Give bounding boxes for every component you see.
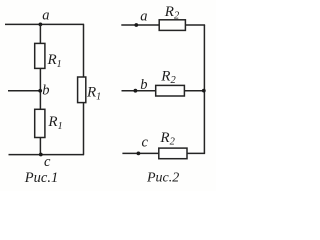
resistor R1 (left branch, upper) <box>35 43 62 70</box>
wire: Fig.1 left branch lower segment <box>39 138 41 155</box>
node a <box>39 8 50 27</box>
node a (Fig.2) <box>134 9 147 27</box>
svg-text:b: b <box>140 77 147 93</box>
svg-text:Рис.2: Рис.2 <box>146 171 179 186</box>
wire: Fig.2 branch c stub <box>122 152 158 154</box>
wire: Fig.2 branch c right segment <box>187 152 205 154</box>
wire: Fig.2 branch a right segment <box>185 24 205 26</box>
svg-text:b: b <box>42 83 49 99</box>
wire: Fig.1 node b stub <box>8 90 40 92</box>
wire: Fig.2 branch a stub <box>121 24 159 26</box>
wire: Fig.2 right vertical bus <box>203 25 205 153</box>
wire: Fig.2 branch b right segment <box>184 90 204 92</box>
svg-text:a: a <box>140 9 147 25</box>
node b <box>38 83 49 99</box>
resistor R2 (branch a) <box>159 4 185 30</box>
svg-text:c: c <box>44 154 51 170</box>
node b (Fig.2) <box>134 77 148 93</box>
resistor R1 (right branch) <box>78 77 102 103</box>
resistor R2 (branch b) <box>156 69 185 97</box>
wire: Fig.1 bottom wire c <box>9 154 85 156</box>
svg-text:a: a <box>42 8 49 24</box>
wire: Fig.1 right branch lower segment <box>83 103 85 155</box>
wire: Fig.1 left branch upper segment <box>39 24 41 43</box>
node c <box>39 153 51 171</box>
svg-text:c: c <box>142 135 149 151</box>
wire: Fig.1 top wire a <box>5 23 84 25</box>
wire: Fig.1 left branch middle segment <box>39 68 41 109</box>
wire: Fig.1 right branch upper segment <box>83 24 85 77</box>
resistor R2 (branch c) <box>159 130 187 159</box>
resistor R1 (left branch, lower) <box>35 109 63 137</box>
svg-text:Рис.1: Рис.1 <box>24 170 58 186</box>
node c (Fig.2) <box>137 135 149 156</box>
wire: Fig.2 branch b stub <box>122 90 156 92</box>
junction dot on bus <box>202 89 206 93</box>
